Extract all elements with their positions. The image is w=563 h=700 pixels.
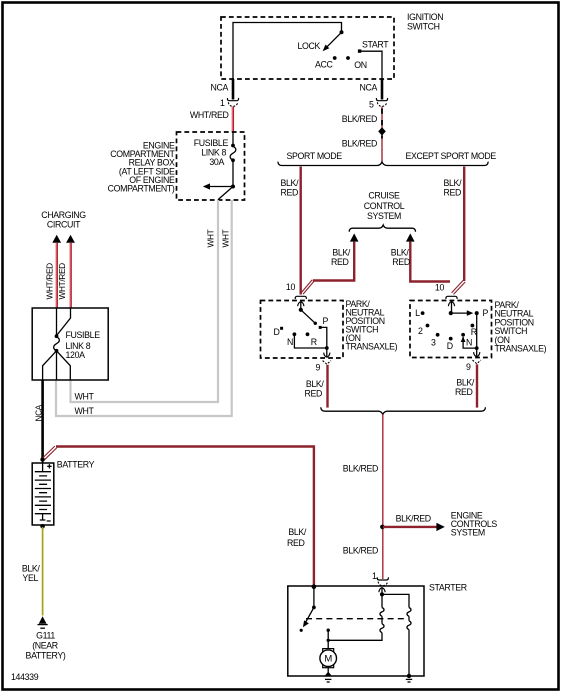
svg-text:R: R (311, 337, 317, 347)
connector pin 9 left (323, 361, 331, 365)
svg-text:BATTERY: BATTERY (57, 460, 95, 470)
wire NCA pin5 stub (381, 79, 384, 100)
svg-text:G111: G111 (36, 631, 55, 641)
wire fuse to relay junction (232, 160, 234, 186)
svg-text:CHARGING: CHARGING (41, 210, 86, 220)
solenoid winding left (380, 608, 384, 633)
svg-text:NCA: NCA (359, 83, 377, 93)
svg-text:NCA: NCA (34, 404, 44, 421)
svg-text:10: 10 (435, 283, 445, 293)
svg-text:LOCK: LOCK (297, 41, 320, 51)
merge brace below switches (321, 407, 486, 414)
contact 3 right box (436, 333, 440, 337)
wire left red into fuse (56, 308, 58, 336)
arrow up to pin10 left inside box (298, 302, 304, 310)
contact START (358, 49, 361, 52)
wire BLK/RED sport-mode left branch (300, 167, 302, 295)
svg-text:TRANSAXLE): TRANSAXLE) (346, 342, 398, 352)
brace cruise control (349, 225, 415, 232)
node pivot right switch (449, 311, 453, 315)
svg-text:144339: 144339 (11, 672, 39, 682)
splice brace sport/except-sport (278, 162, 488, 166)
wire ignition internal left riser (233, 23, 342, 80)
contact N right box (461, 333, 465, 337)
svg-text:STARTER: STARTER (429, 583, 467, 593)
label FUSIBLE LINK 8 120A (66, 330, 101, 360)
svg-text:RED: RED (455, 387, 473, 397)
svg-text:WHT/RED: WHT/RED (44, 263, 54, 300)
node junction diamond (378, 127, 386, 135)
contact P left box (319, 326, 322, 329)
wire to hold-in winding (381, 594, 383, 607)
svg-text:BLK/RED: BLK/RED (396, 514, 431, 524)
node ignition pivot (340, 30, 344, 34)
connector pin 10 right (446, 296, 457, 299)
wire WHT/RED charging right (70, 243, 71, 308)
wire BLK/RED cruise branch left (313, 242, 354, 281)
svg-text:P: P (483, 308, 489, 318)
fusible link 8 120A box (32, 308, 108, 380)
wire BLK/RED pin5 to junction diamond (381, 107, 383, 162)
svg-text:M: M (324, 654, 332, 665)
svg-text:1: 1 (372, 571, 377, 581)
label FUSIBLE LINK 8 30A (194, 138, 229, 167)
svg-text:FUSIBLE: FUSIBLE (66, 330, 101, 340)
label G111 (NEAR BATTERY) (26, 631, 66, 661)
svg-text:N: N (466, 338, 472, 348)
connector pin 1 (227, 98, 238, 106)
svg-text:P: P (323, 316, 329, 326)
svg-text:WHT/RED: WHT/RED (57, 263, 67, 300)
svg-text:IGNITION: IGNITION (407, 12, 443, 22)
solenoid winding right (407, 608, 411, 630)
arrow to cruise control left (350, 233, 359, 241)
wire pull-in winding to ground (408, 630, 410, 676)
wire motor terminal down (327, 630, 329, 649)
svg-text:SYSTEM: SYSTEM (367, 211, 401, 221)
contact P right box (475, 311, 479, 315)
wire BLK/RED except-sport right branch (463, 167, 465, 282)
connector pin 9 right (473, 360, 481, 364)
svg-text:BLK/: BLK/ (281, 178, 300, 188)
svg-text:10: 10 (286, 282, 296, 292)
wire battery into switch (313, 587, 315, 608)
contact starter motor terminal (327, 629, 330, 632)
contact D right box (449, 337, 453, 341)
svg-text:L: L (415, 308, 420, 318)
svg-text:CRUISE: CRUISE (368, 191, 400, 201)
svg-text:CIRCUIT: CIRCUIT (47, 220, 81, 230)
wire WHT/RED charging left (56, 243, 57, 308)
ignition switch box S1 (221, 12, 443, 79)
label BLK/ RED starter feed (287, 527, 307, 548)
arrow up to pin1 inside starter (379, 588, 385, 595)
svg-text:D: D (447, 341, 453, 351)
svg-text:TRANSAXLE): TRANSAXLE) (495, 344, 547, 354)
contact L right box (421, 311, 425, 315)
node pivot left switch (299, 308, 303, 312)
wire right red diagonal into fuse (57, 308, 71, 335)
wire START to pin 5 (361, 51, 382, 79)
svg-text:3: 3 (431, 338, 436, 348)
svg-text:START: START (362, 40, 389, 50)
label BLK/ RED cruise left (331, 248, 351, 268)
label BLK/ RED pin9 right (455, 378, 475, 398)
svg-text:ON: ON (354, 60, 367, 70)
switch arm LOCK (323, 32, 342, 51)
svg-text:YEL: YEL (22, 573, 38, 583)
svg-text:30A: 30A (209, 157, 224, 167)
contact starter switch lower (300, 629, 303, 632)
node starter switch pivot (312, 606, 316, 610)
svg-text:RED: RED (444, 188, 462, 198)
node battery feed junction on box edge (312, 584, 317, 589)
wire BLK/RED merge to engine controls junction (382, 414, 384, 579)
wire BLK/RED pin9 right down (476, 364, 478, 407)
svg-text:RED: RED (304, 389, 322, 399)
engine compartment relay box (108, 132, 245, 200)
connector pin 1 starter (377, 577, 388, 585)
svg-text:BLK/: BLK/ (306, 379, 325, 389)
wire WHT/RED from pin1 to relay box (232, 107, 233, 133)
park/neutral position switch left box (261, 299, 398, 358)
starter switch arm (303, 607, 314, 627)
svg-text:BLK/: BLK/ (332, 248, 351, 258)
svg-text:ACC: ACC (315, 60, 334, 70)
arrow to engine controls system (436, 523, 444, 531)
svg-text:LINK 8: LINK 8 (201, 148, 226, 158)
wire BLK/RED pin9 left down (326, 365, 328, 408)
arrow down to pin9 left (324, 348, 330, 357)
svg-text:SYSTEM: SYSTEM (451, 527, 485, 537)
contact R right box (471, 324, 475, 328)
contact D left box (280, 327, 283, 330)
svg-text:BLK/: BLK/ (456, 378, 475, 388)
node relay junction (231, 185, 235, 189)
ground solenoid (406, 674, 412, 682)
svg-text:BLK/RED: BLK/RED (342, 114, 377, 124)
wire WHT from relay junction to fusible link box (56, 200, 232, 416)
svg-text:BLK/RED: BLK/RED (343, 546, 378, 556)
switch arm left box (301, 310, 317, 325)
label CHARGING CIRCUIT (41, 210, 86, 230)
connector pin 10 left (295, 296, 306, 299)
connector pin 5 (376, 98, 387, 106)
svg-text:WHT: WHT (75, 406, 95, 416)
wire motor to ground (327, 668, 329, 676)
node battery positive junction (40, 457, 45, 462)
arrow to cruise control right (406, 233, 415, 241)
label BLK/ RED right branch (444, 178, 463, 198)
svg-text:RED: RED (392, 257, 410, 267)
ground G111 (38, 616, 48, 628)
node pin9 junction right (475, 346, 479, 350)
svg-text:(NEAR: (NEAR (32, 641, 58, 651)
wire P down to junction right (476, 313, 478, 348)
label BLK/ YEL (22, 564, 41, 584)
svg-text:BLK/RED: BLK/RED (343, 464, 378, 474)
wire NCA battery feed (41, 380, 44, 460)
relay arm arrow left (203, 183, 233, 189)
svg-text:BLK/: BLK/ (391, 248, 410, 258)
svg-text:SPORT MODE: SPORT MODE (287, 151, 343, 161)
contact N left box (293, 332, 297, 336)
svg-text:RED: RED (287, 538, 305, 548)
node pin9 junction left (325, 346, 329, 350)
node battery negative junction (40, 524, 45, 529)
node starter solenoid junction (380, 592, 384, 596)
svg-text:1: 1 (220, 98, 225, 108)
svg-text:2: 2 (418, 326, 423, 336)
battery B1 (32, 460, 54, 526)
contact 2 right box (426, 324, 430, 328)
svg-text:RED: RED (331, 257, 349, 267)
label CRUISE CONTROL SYSTEM (364, 191, 405, 221)
wire WHT from relay left output to fusible link box (71, 200, 219, 402)
park/neutral position switch right box (410, 300, 547, 358)
wire BLK/YEL battery ground (42, 527, 44, 616)
svg-text:R: R (471, 327, 477, 337)
svg-text:NCA: NCA (210, 83, 228, 93)
arrow up to pin10 right inside box (448, 302, 454, 313)
svg-text:RED: RED (281, 188, 299, 198)
wire N to pin9 junction right with up arrow (461, 337, 477, 349)
svg-text:WHT: WHT (221, 229, 231, 247)
starter box (288, 583, 467, 677)
label BLK/ RED pin9 left (304, 379, 324, 399)
svg-text:N: N (287, 337, 293, 347)
wire fuse to outputs of 120A box (43, 351, 71, 380)
ground starter motor (325, 672, 332, 682)
node engine controls junction (380, 525, 385, 530)
wire NCA pin1 stub (232, 79, 235, 100)
wire BLK/RED engine controls branch (383, 526, 437, 528)
wire to pull-in winding (382, 594, 409, 607)
wire P and N to pin9 junction (294, 327, 326, 348)
wire hold-in winding to motor branch (328, 633, 382, 641)
svg-text:FUSIBLE: FUSIBLE (194, 138, 229, 148)
svg-text:BLK/: BLK/ (22, 564, 41, 574)
node motor branch junction (327, 639, 330, 642)
svg-text:BLK/: BLK/ (444, 178, 463, 188)
svg-text:WHT/RED: WHT/RED (190, 110, 229, 120)
contact R left box (306, 332, 310, 336)
svg-text:WHT: WHT (206, 229, 216, 247)
wire BLK/RED cruise branch right (410, 242, 450, 282)
svg-text:EXCEPT SPORT MODE: EXCEPT SPORT MODE (406, 151, 497, 161)
arrow down to pin9 right (474, 348, 480, 357)
svg-text:WHT: WHT (75, 392, 95, 402)
svg-text:D: D (273, 327, 279, 337)
svg-text:CONTROL: CONTROL (364, 201, 405, 211)
contact ON (346, 56, 350, 60)
relay diagonal to left output (218, 187, 233, 200)
label BLK/ RED left branch (281, 178, 300, 198)
solenoid linkage dashed (306, 618, 408, 620)
svg-text:5: 5 (369, 100, 374, 110)
svg-text:COMPARTMENT): COMPARTMENT) (108, 184, 175, 194)
svg-text:BLK/: BLK/ (288, 527, 307, 537)
wire into relay box (232, 132, 234, 145)
svg-text:SWITCH: SWITCH (407, 22, 440, 32)
fusible link 8 120A fuse (54, 334, 60, 352)
label BLK/ RED cruise right (391, 248, 410, 268)
svg-text:BATTERY): BATTERY) (26, 651, 66, 661)
svg-text:9: 9 (315, 363, 320, 373)
switch arm right box to P (451, 310, 474, 316)
starter motor M (320, 649, 337, 668)
svg-text:9: 9 (466, 362, 471, 372)
label ENGINE CONTROLS SYSTEM (451, 511, 498, 538)
fusible link 8 30A fuse (230, 144, 236, 163)
svg-text:120A: 120A (66, 350, 86, 360)
svg-text:BLK/RED: BLK/RED (342, 139, 377, 149)
arrow to charging circuit left (52, 235, 61, 243)
contact ACC (333, 56, 337, 60)
wire BLK/RED battery to starter branch (56, 447, 314, 587)
arrow to charging circuit right (66, 235, 75, 243)
